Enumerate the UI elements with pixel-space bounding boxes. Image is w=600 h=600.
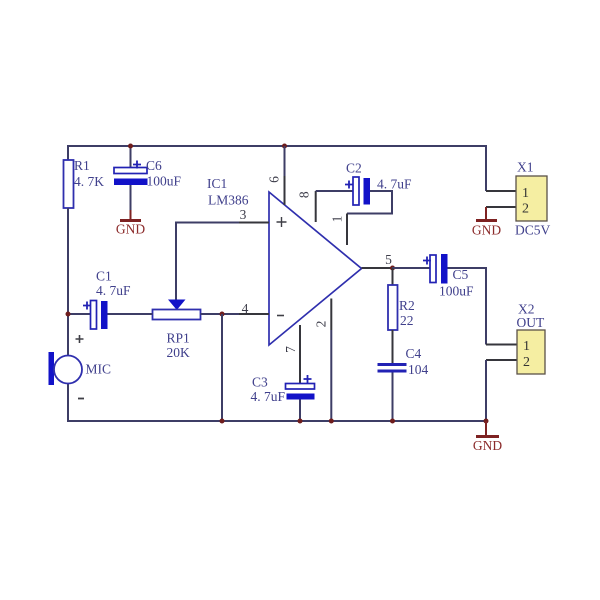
- svg-text:LM386: LM386: [208, 193, 249, 208]
- wire C1 to RP1: [108, 313, 153, 315]
- op-amp minus input mark: [277, 315, 284, 317]
- pin 3 stub: [239, 222, 269, 224]
- svg-text:100uF: 100uF: [439, 284, 474, 299]
- wire C6 bottom lead: [130, 185, 132, 210]
- svg-text:R1: R1: [74, 158, 90, 173]
- svg-text:IC1: IC1: [207, 176, 227, 191]
- pin 8 stub: [315, 191, 317, 222]
- node junction pin6/top rail: [282, 144, 287, 149]
- svg-text:4. 7uF: 4. 7uF: [96, 283, 131, 298]
- svg-text:GND: GND: [473, 438, 502, 453]
- ground X2: [473, 421, 502, 453]
- svg-text:X1: X1: [517, 160, 534, 175]
- wire C3 to bottom rail: [299, 400, 301, 422]
- wire left rail mid: [67, 208, 69, 357]
- svg-text:1: 1: [523, 339, 530, 354]
- ground X1 pin2: [472, 207, 501, 238]
- svg-text:C5: C5: [453, 267, 469, 282]
- capacitor C5: [423, 254, 474, 299]
- svg-text:R2: R2: [399, 298, 415, 313]
- resistor R1: [64, 158, 105, 208]
- pin 2 stub: [330, 299, 332, 331]
- wire pin8 to C2: [316, 190, 353, 192]
- svg-text:5: 5: [385, 252, 392, 267]
- wire X2 pin1 lead: [486, 344, 517, 346]
- node junction C6/top rail: [128, 144, 133, 149]
- svg-text:20K: 20K: [167, 345, 191, 360]
- wire left rail upper: [67, 145, 69, 161]
- svg-text:C2: C2: [346, 161, 362, 176]
- wire pin2 to bottom rail: [330, 330, 332, 421]
- svg-text:C6: C6: [146, 158, 162, 173]
- pin 7 stub: [299, 325, 301, 384]
- svg-text:2: 2: [314, 321, 329, 328]
- svg-text:4. 7uF: 4. 7uF: [377, 177, 412, 192]
- wire C2 to pin1: [347, 191, 392, 214]
- wire X2 pin2 to bottom rail: [485, 360, 487, 421]
- node junction bottom rail x486: [484, 419, 489, 424]
- wire RP1 to node: [201, 313, 240, 315]
- svg-text:7: 7: [283, 346, 298, 353]
- node junction mic/C1: [66, 312, 71, 317]
- wire node down to bottom rail: [221, 314, 223, 421]
- svg-text:C4: C4: [406, 346, 422, 361]
- node junction bottom rail x392: [390, 419, 395, 424]
- svg-text:C1: C1: [96, 269, 112, 284]
- svg-text:3: 3: [240, 207, 247, 222]
- wire top rail right drop: [485, 145, 487, 191]
- svg-text:OUT: OUT: [517, 315, 545, 330]
- pin 1 stub: [346, 214, 348, 246]
- svg-text:1: 1: [330, 216, 345, 223]
- op-amp U1 triangle: [269, 192, 362, 345]
- capacitor C1: [83, 269, 131, 330]
- svg-text:DC5V: DC5V: [515, 223, 551, 238]
- wire X1 pin1 lead: [486, 190, 516, 192]
- wire X1 pin2 lead: [486, 206, 516, 208]
- node junction pin5: [390, 266, 395, 271]
- capacitor C2: [345, 161, 412, 206]
- wire C6 top lead: [130, 146, 132, 168]
- wire pin6 net: [284, 146, 286, 176]
- node junction bottom rail x331: [329, 419, 334, 424]
- svg-text:2: 2: [522, 202, 529, 217]
- wire pin3 net: [176, 223, 239, 301]
- pin 5 stub: [362, 267, 393, 269]
- svg-text:6: 6: [267, 176, 282, 183]
- svg-text:104: 104: [408, 362, 429, 377]
- svg-text:2: 2: [523, 355, 530, 370]
- wire C5 to X2 pin1: [448, 268, 487, 345]
- node junction RP1 out: [220, 312, 225, 317]
- svg-text:RP1: RP1: [167, 331, 190, 346]
- potentiometer RP1: [153, 300, 201, 361]
- wire C4 to bottom rail: [392, 373, 394, 422]
- connector X2: [517, 302, 546, 375]
- microphone MIC: [49, 335, 112, 399]
- capacitor C3: [251, 375, 315, 405]
- svg-text:MIC: MIC: [86, 362, 112, 377]
- node junction bottom rail x300: [298, 419, 303, 424]
- wire R2 to C4: [392, 330, 394, 364]
- svg-text:100uF: 100uF: [147, 174, 182, 189]
- resistor R2: [388, 268, 415, 330]
- wire bottom rail: [68, 420, 486, 422]
- svg-text:4: 4: [242, 301, 249, 316]
- wire top rail: [68, 145, 486, 147]
- connector X1: [515, 160, 551, 238]
- op-amp plus input mark: [277, 217, 287, 227]
- svg-text:C3: C3: [252, 375, 268, 390]
- wire X2 pin2 lead: [486, 359, 517, 361]
- pin 6 stub: [284, 176, 286, 205]
- svg-text:GND: GND: [472, 223, 501, 238]
- svg-text:4. 7K: 4. 7K: [74, 174, 104, 189]
- wire C1 left lead: [68, 313, 91, 315]
- wire pin5 to C5: [392, 267, 430, 269]
- svg-text:8: 8: [297, 191, 312, 198]
- capacitor C4: [378, 346, 429, 377]
- capacitor C6: [114, 158, 182, 189]
- svg-text:GND: GND: [116, 222, 145, 237]
- wire left rail lower: [67, 383, 69, 422]
- node junction bottom rail x222: [220, 419, 225, 424]
- svg-text:22: 22: [400, 313, 414, 328]
- svg-text:1: 1: [522, 186, 529, 201]
- pin 4 stub: [239, 313, 269, 315]
- svg-text:4. 7uF: 4. 7uF: [251, 389, 286, 404]
- ground below C6: [116, 210, 145, 237]
